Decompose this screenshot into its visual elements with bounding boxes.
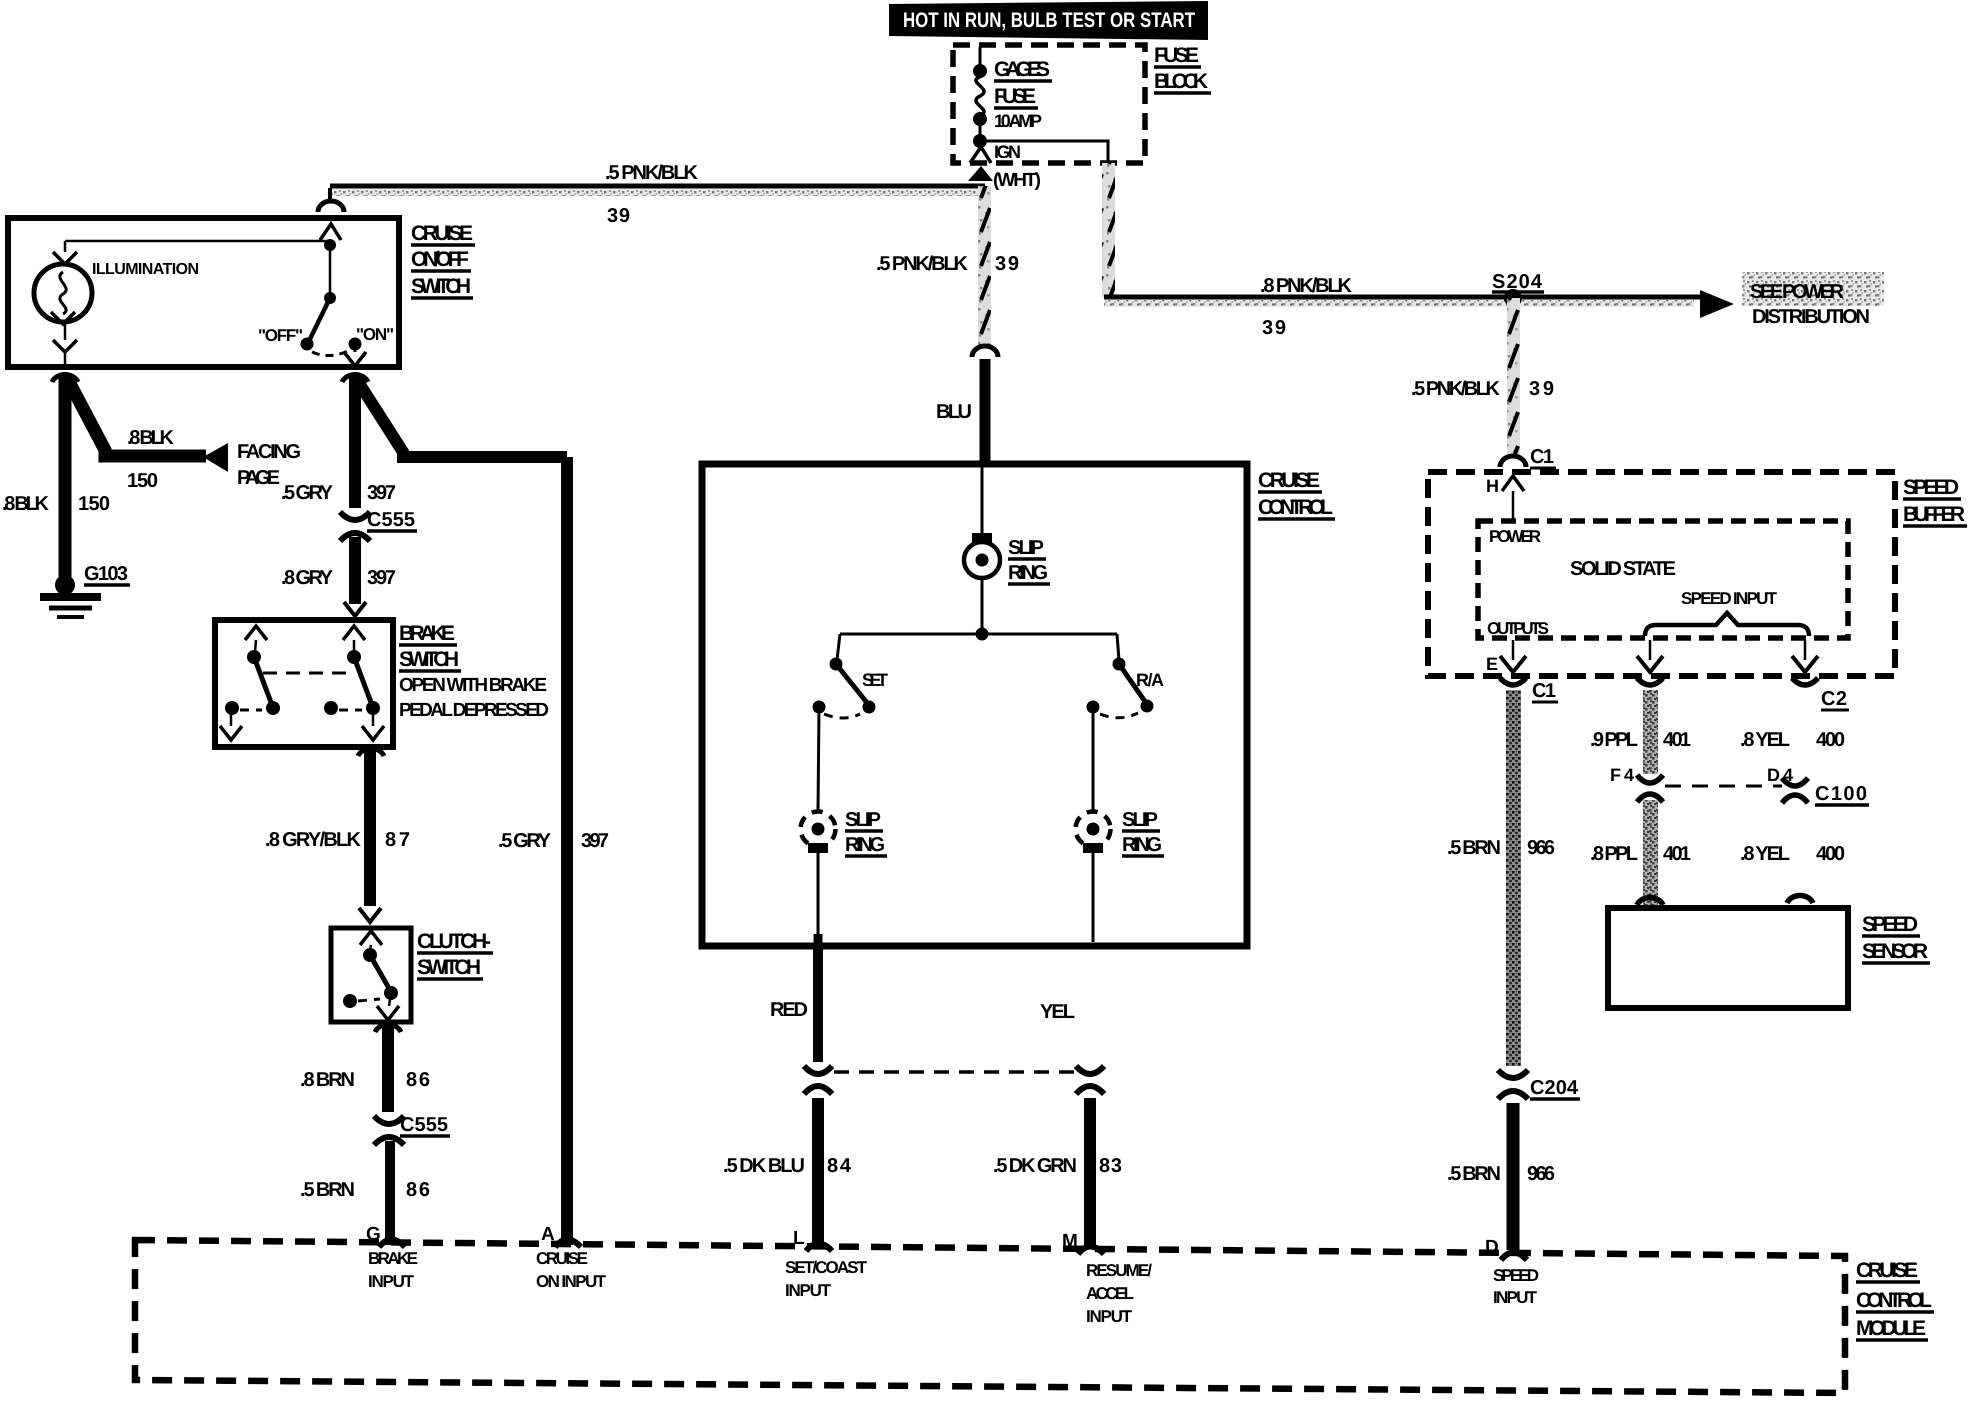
wire RED [770, 948, 818, 1062]
label YEL [1040, 1001, 1075, 1023]
wire .8 BLK 150 branch to facing page [67, 378, 301, 492]
svg-text:86: 86 [406, 1179, 430, 1201]
brake switch pole 1 [220, 626, 280, 740]
connector C100 F4/D4 [1610, 765, 1869, 805]
svg-text:.5 DK GRN: .5 DK GRN [993, 1155, 1077, 1177]
svg-text:FUSE: FUSE [994, 85, 1036, 108]
svg-text:.5 PNK/BLK: .5 PNK/BLK [1411, 378, 1501, 400]
svg-text:.8 BRN: .8 BRN [300, 1069, 355, 1091]
svg-text:400: 400 [1816, 843, 1845, 865]
svg-text:SPEED: SPEED [1903, 476, 1959, 499]
connector C555 upper [340, 509, 417, 541]
speed sensor label [1862, 913, 1930, 963]
svg-text:ON/OFF: ON/OFF [411, 248, 469, 271]
svg-text:CRUISE: CRUISE [411, 222, 473, 245]
svg-text:.9 PPL: .9 PPL [1590, 729, 1638, 751]
svg-text:397: 397 [367, 567, 396, 589]
svg-text:SPEED: SPEED [1493, 1266, 1539, 1285]
wire BLU to cruise control [936, 359, 985, 465]
wire .8 PPL 401 [1590, 800, 1845, 905]
svg-text:ACCEL: ACCEL [1086, 1284, 1134, 1303]
svg-text:SET: SET [862, 670, 888, 690]
wire .5 PNK/BLK 39 vertical from IGN to BLU [876, 186, 1019, 348]
svg-text:OUTPUTS: OUTPUTS [1487, 619, 1549, 638]
fuse block box [953, 45, 1145, 163]
svg-text:E: E [1486, 654, 1498, 674]
svg-text:G103: G103 [84, 563, 128, 585]
clutch switch labels [417, 930, 493, 979]
connector arc at switch top pin [318, 188, 344, 240]
svg-text:SLIP: SLIP [845, 809, 881, 831]
svg-text:INPUT: INPUT [785, 1281, 832, 1300]
svg-text:RING: RING [1008, 562, 1048, 584]
clutch switch box [331, 928, 411, 1022]
wire .8 BLK 150 to ground [2, 376, 110, 580]
cruise on/off switch box [8, 218, 399, 367]
svg-text:"OFF": "OFF" [258, 326, 303, 345]
solid state box [1478, 521, 1848, 638]
brake switch pole 2 [324, 626, 384, 740]
svg-text:150: 150 [78, 493, 110, 515]
svg-text:C555: C555 [400, 1114, 448, 1136]
brake switch labels [399, 622, 549, 721]
svg-text:RED: RED [770, 999, 808, 1021]
svg-text:C204: C204 [1530, 1077, 1579, 1099]
svg-text:C2: C2 [1821, 688, 1847, 710]
wire .5 BRN 966 lower [1447, 1103, 1555, 1250]
slip ring L [801, 809, 888, 856]
wire .8 GRY/BLK 87 [265, 750, 410, 922]
inline connector pair R [1076, 1066, 1104, 1094]
svg-text:397: 397 [367, 482, 396, 504]
connector C1 at speed buffer [1500, 446, 1556, 468]
svg-text:401: 401 [1663, 843, 1691, 865]
clutch switch contacts [343, 931, 399, 1020]
pin A [536, 1224, 607, 1291]
wire .9 PPL 401 [1590, 690, 1845, 774]
svg-text:966: 966 [1527, 837, 1555, 859]
svg-text:10 AMP: 10 AMP [994, 111, 1042, 131]
svg-text:BRAKE: BRAKE [399, 622, 455, 645]
svg-text:.5 BRN: .5 BRN [1447, 837, 1501, 859]
svg-text:83: 83 [1099, 1155, 1122, 1177]
svg-text:BUFFER: BUFFER [1903, 503, 1965, 526]
svg-text:RING: RING [845, 834, 885, 856]
svg-text:YEL: YEL [1040, 1001, 1075, 1023]
svg-text:.8 PNK/BLK: .8 PNK/BLK [1260, 275, 1353, 297]
wire .5 GRY 397 branch to cruise on input [357, 380, 609, 1245]
wire .5 DK GRN 83 [993, 1098, 1122, 1247]
wire .5 GRY 397 ON to C555 [281, 376, 396, 508]
svg-text:150: 150 [127, 470, 158, 492]
splice S204 [1492, 271, 1544, 307]
pin exit below clutch switch [375, 1024, 401, 1032]
svg-text:CONTROL: CONTROL [1258, 496, 1333, 519]
svg-text:.5 GRY: .5 GRY [498, 830, 552, 852]
pin L [785, 1228, 868, 1300]
pin ON exit [342, 344, 368, 382]
svg-text:.8 YEL: .8 YEL [1740, 843, 1790, 865]
svg-text:.5 DK BLU: .5 DK BLU [723, 1155, 805, 1177]
pin exit below brake switch [358, 748, 384, 756]
hot-in-run banner [889, 1, 1208, 40]
connector C1 below pin E [1500, 678, 1558, 702]
svg-text:RING: RING [1122, 834, 1162, 856]
svg-text:PEDAL DEPRESSED: PEDAL DEPRESSED [399, 700, 549, 721]
pin lamp ground exit [52, 374, 78, 382]
fuse block label [1154, 44, 1211, 93]
svg-text:DISTRIBUTION: DISTRIBUTION [1752, 306, 1870, 328]
connector C2 below right arrow [1792, 678, 1849, 710]
wire .5 PNK/BLK 39 horizontal from switch to IGN [330, 162, 985, 227]
cruise on/off switch label [411, 222, 475, 298]
svg-text:CRUISE: CRUISE [1258, 469, 1320, 492]
on/off switch arm [258, 298, 394, 356]
svg-text:(WHT): (WHT) [993, 170, 1041, 191]
pin G [366, 1224, 418, 1291]
wire .8 BRN 86 [300, 1026, 430, 1112]
svg-text:39: 39 [995, 253, 1019, 275]
wire slip ring R to box edge [1092, 853, 1095, 942]
svg-text:FUSE: FUSE [1154, 44, 1199, 67]
svg-text:SLIP: SLIP [1122, 809, 1158, 831]
svg-text:HOT IN RUN, BULB TEST OR START: HOT IN RUN, BULB TEST OR START [903, 9, 1195, 32]
svg-text:RESUME/: RESUME/ [1086, 1261, 1152, 1280]
svg-text:BLOCK: BLOCK [1154, 70, 1208, 93]
wire .5 BRN 86 [300, 1141, 430, 1245]
wire .5 PNK/BLK 39 from S204 to speed buffer C1 [1411, 298, 1554, 458]
svg-text:PAGE: PAGE [237, 467, 280, 489]
ground G103 [40, 563, 130, 617]
output arrow right [1792, 640, 1818, 672]
svg-text:SWITCH: SWITCH [399, 648, 459, 671]
svg-text:SWITCH: SWITCH [411, 275, 471, 298]
cruise control box [702, 464, 1247, 946]
svg-text:.8 BLK: .8 BLK [2, 493, 50, 515]
connector IGN to BLU [972, 346, 998, 357]
wire .8 PNK/BLK 39 from fuse block to S204 [1102, 163, 1700, 339]
wire lamp to switch junction [65, 239, 336, 304]
svg-text:39: 39 [1262, 317, 1286, 339]
speed sensor box [1608, 895, 1848, 1008]
wire slip ring L to box edge [817, 853, 820, 948]
fuse GAGES FUSE 10 AMP [973, 47, 987, 148]
slip ring R [1076, 809, 1165, 856]
svg-text:.8 BLK: .8 BLK [127, 427, 175, 449]
brake switch box [215, 620, 393, 747]
svg-text:SPEED INPUT: SPEED INPUT [1681, 589, 1778, 608]
svg-text:397: 397 [581, 830, 609, 852]
svg-text:.8 GRY/BLK: .8 GRY/BLK [265, 829, 362, 851]
slip ring top [964, 467, 1050, 584]
svg-text:401: 401 [1663, 729, 1691, 751]
cruise control label [1258, 469, 1335, 519]
svg-text:SWITCH: SWITCH [417, 956, 481, 979]
svg-text:SEE POWER: SEE POWER [1750, 281, 1845, 303]
wire .5 DK BLU 84 [723, 1098, 852, 1247]
connector C555 lower [374, 1114, 450, 1145]
switch SET [813, 634, 889, 718]
svg-text:.5 BRN: .5 BRN [300, 1179, 355, 1201]
svg-text:.5 PNK/BLK: .5 PNK/BLK [876, 253, 969, 275]
svg-text:MODULE: MODULE [1856, 1317, 1926, 1340]
svg-text:GAGES: GAGES [994, 58, 1050, 81]
svg-text:84: 84 [827, 1155, 852, 1177]
svg-text:C1: C1 [1530, 446, 1554, 468]
switch R/A [1087, 634, 1165, 718]
svg-text:D: D [1485, 1237, 1499, 1258]
svg-text:BLU: BLU [936, 401, 972, 423]
svg-text:C1: C1 [1532, 680, 1556, 702]
svg-text:ILLUMINATION: ILLUMINATION [92, 261, 199, 278]
svg-text:C100: C100 [1815, 783, 1867, 805]
brake switch gang dashed link [263, 672, 355, 675]
output arrow middle [1637, 640, 1663, 672]
svg-text:BRAKE: BRAKE [368, 1249, 418, 1268]
svg-text:A: A [541, 1224, 555, 1245]
wire junction horizontal [840, 633, 1117, 636]
inline connector pair L [804, 1066, 832, 1094]
svg-text:86: 86 [406, 1069, 430, 1091]
svg-text:G: G [366, 1224, 381, 1245]
cruise control module box [135, 1240, 1845, 1393]
svg-text:R/A: R/A [1136, 670, 1164, 690]
svg-text:ON INPUT: ON INPUT [536, 1272, 607, 1291]
svg-text:966: 966 [1527, 1163, 1555, 1185]
svg-text:.5 GRY: .5 GRY [281, 482, 334, 504]
svg-text:FACING: FACING [237, 441, 301, 463]
wire slip ring to junction [976, 578, 989, 641]
svg-text:.8 YEL: .8 YEL [1740, 729, 1790, 751]
svg-text:CONTROL: CONTROL [1856, 1289, 1932, 1312]
svg-text:M: M [1062, 1231, 1078, 1252]
svg-text:SLIP: SLIP [1008, 537, 1044, 559]
svg-text:"ON": "ON" [356, 325, 394, 344]
svg-text:.5 PNK/BLK: .5 PNK/BLK [605, 162, 699, 184]
connector below middle arrow [1637, 678, 1663, 685]
pin IGN [968, 142, 1041, 191]
pin M [1062, 1231, 1152, 1326]
svg-text:SOLID STATE: SOLID STATE [1570, 558, 1676, 580]
pin E arrow [1486, 640, 1526, 674]
cruise control module label [1856, 1259, 1934, 1340]
wire .8 GRY 397 [281, 537, 396, 616]
speed input brace [1645, 589, 1809, 636]
svg-text:H: H [1486, 476, 1499, 496]
svg-text:.5 BRN: .5 BRN [1447, 1163, 1501, 1185]
svg-text:.8 PPL: .8 PPL [1590, 843, 1638, 865]
svg-text:CLUTCH-: CLUTCH- [417, 930, 491, 953]
illumination lamp [34, 241, 199, 364]
speed buffer label [1903, 476, 1967, 526]
connector C204 [1498, 1070, 1580, 1099]
connector gang dashed line [834, 1070, 1074, 1074]
wire R/A to slip ring R [1092, 707, 1095, 812]
svg-text:INPUT: INPUT [1086, 1307, 1133, 1326]
fuse value labels [994, 58, 1052, 131]
speed buffer box [1428, 472, 1895, 676]
svg-text:INPUT: INPUT [368, 1272, 415, 1291]
svg-text:SPEED: SPEED [1862, 913, 1918, 936]
svg-text:.8 GRY: .8 GRY [281, 567, 334, 589]
svg-text:OPEN WITH BRAKE: OPEN WITH BRAKE [399, 675, 547, 696]
svg-text:IGN: IGN [994, 142, 1021, 162]
svg-text:L: L [793, 1228, 805, 1249]
wire .5 BRN 966 upper [1447, 690, 1555, 1066]
svg-text:C555: C555 [367, 509, 415, 531]
svg-text:CRUISE: CRUISE [536, 1249, 588, 1268]
svg-text:CRUISE: CRUISE [1856, 1259, 1918, 1282]
wire SET to slip ring L [818, 707, 819, 812]
svg-text:POWER: POWER [1489, 527, 1541, 546]
svg-text:SENSOR: SENSOR [1862, 940, 1928, 963]
svg-text:SET/COAST: SET/COAST [785, 1258, 868, 1277]
svg-text:S204: S204 [1492, 271, 1543, 293]
pin H [1486, 476, 1524, 521]
internal bus wire to right exit [980, 141, 1108, 161]
arrow to see power distribution [1700, 272, 1884, 328]
pin D [1485, 1237, 1539, 1307]
svg-text:400: 400 [1816, 729, 1845, 751]
svg-text:39: 39 [607, 205, 630, 227]
svg-text:INPUT: INPUT [1493, 1288, 1538, 1307]
